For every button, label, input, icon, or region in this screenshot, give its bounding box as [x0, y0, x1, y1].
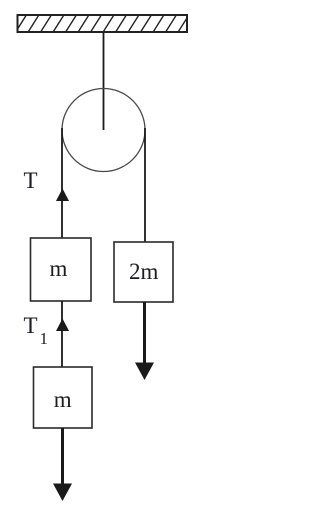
arrow down weight of 2m block	[135, 302, 154, 380]
svg-text:1: 1	[40, 329, 49, 348]
svg-text:T: T	[24, 313, 38, 338]
ceiling hatched support	[15, 14, 190, 33]
wire: left string from pulley to block m	[61, 128, 63, 238]
block m (upper left mass)	[31, 238, 92, 301]
wire: string between the two m blocks	[61, 301, 63, 367]
wire: right string from pulley to block 2m	[144, 128, 146, 242]
svg-text:m: m	[54, 387, 72, 412]
svg-text:m: m	[50, 256, 68, 281]
arrow up T1 on middle string	[56, 319, 69, 332]
block m (lower left mass)	[34, 367, 93, 428]
wire: pulley axle support from ceiling	[103, 32, 105, 130]
arrow up T on left string	[56, 189, 69, 202]
pulley wheel	[62, 89, 145, 172]
svg-text:2m: 2m	[129, 259, 159, 284]
svg-text:T: T	[24, 168, 38, 193]
arrow down weight of lower m block	[53, 428, 72, 501]
block 2m (right mass)	[114, 242, 173, 302]
